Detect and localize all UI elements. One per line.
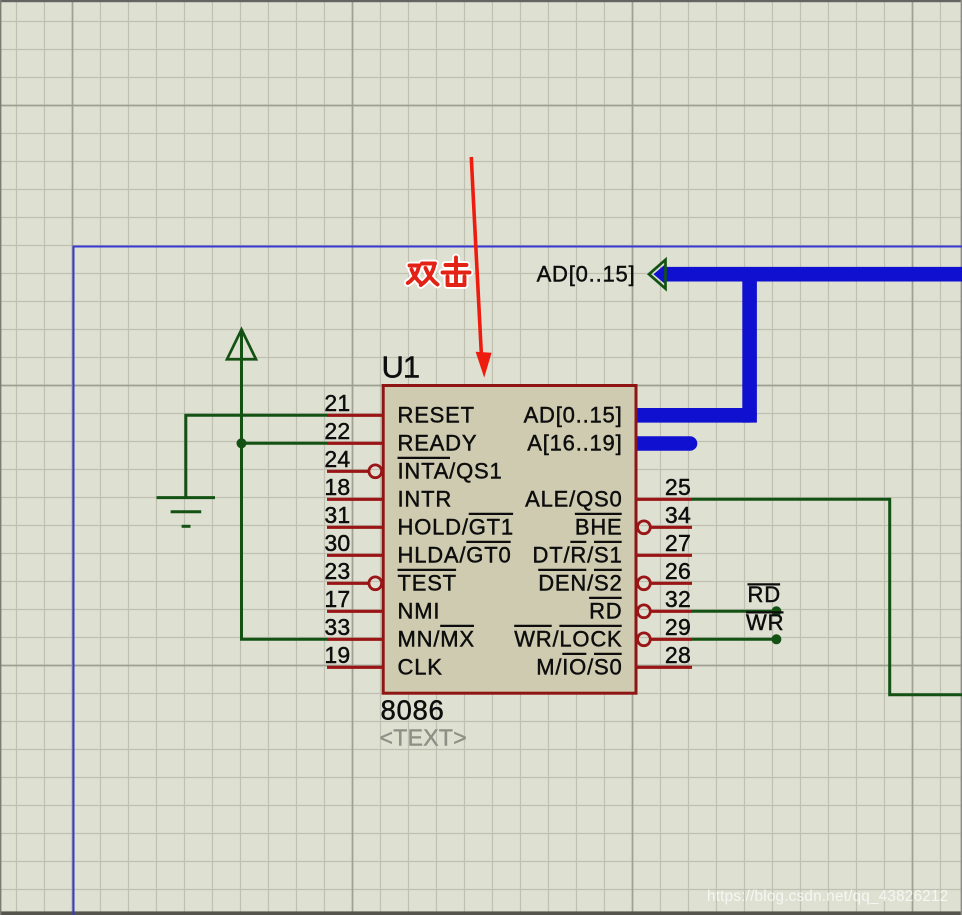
svg-text:25: 25 (665, 474, 691, 500)
bus vertical drop (742, 274, 757, 422)
pin label M/IO/S0 (536, 654, 622, 680)
pin 24 left (circle, row 3) (324, 446, 381, 478)
bus entry arrowhead (649, 260, 666, 289)
svg-text:DT/R/S1: DT/R/S1 (533, 543, 623, 568)
pin 32 right (circle, row 8) (638, 586, 693, 618)
svg-text:19: 19 (324, 642, 350, 668)
svg-text:27: 27 (665, 530, 691, 556)
pin label DEN/S2 (538, 570, 622, 596)
svg-text:32: 32 (665, 586, 691, 612)
pin label INTA/QS1 (398, 458, 503, 484)
net label AD[0..15] (537, 261, 636, 286)
svg-text:DEN/S2: DEN/S2 (538, 571, 622, 596)
svg-text:AD[0..15]: AD[0..15] (537, 261, 636, 286)
wire VCC rail down to MN/MX pin 33 (242, 330, 328, 639)
pin label INTR (398, 487, 453, 512)
svg-text:<TEXT>: <TEXT> (380, 725, 467, 751)
wire GND to RESET pin 21 (186, 415, 327, 497)
svg-text:30: 30 (324, 530, 350, 556)
svg-text:READY: READY (398, 431, 478, 456)
pin label BHE (575, 514, 623, 540)
pin label NMI (398, 599, 441, 624)
svg-text:21: 21 (324, 390, 350, 416)
svg-text:ALE/QS0: ALE/QS0 (525, 487, 622, 512)
pin label RESET (398, 403, 475, 428)
wire WR pin 29 to node WR (692, 638, 776, 641)
svg-text:RESET: RESET (398, 403, 475, 428)
pin label AD[0..15] (524, 403, 623, 428)
pin 17 left (row 8) (324, 586, 383, 612)
svg-text:NMI: NMI (398, 599, 441, 624)
wire RD pin 32 to node RD (692, 610, 776, 613)
pin label HLDA/GT0 (398, 542, 512, 568)
net label WR (746, 610, 784, 635)
svg-text:RD: RD (589, 599, 622, 624)
pin label ALE/QS0 (525, 487, 622, 512)
svg-text:22: 22 (324, 418, 350, 444)
pin 19 left (row 10) (324, 642, 383, 668)
pin 26 right (circle, row 7) (638, 558, 693, 590)
svg-text:RD: RD (748, 582, 781, 607)
pin 31 left (row 5) (324, 502, 383, 528)
svg-text:28: 28 (665, 642, 691, 668)
pin label READY (398, 431, 478, 456)
svg-text:A[16..19]: A[16..19] (527, 431, 622, 456)
pin 21 left (row 1) (324, 390, 383, 416)
pin 27 right (row 6) (636, 530, 692, 556)
svg-text:TEST: TEST (398, 571, 457, 596)
pin label WR/LOCK (514, 626, 622, 652)
label U1 (382, 350, 420, 385)
pin 18 left (row 4) (324, 474, 383, 500)
svg-text:8086: 8086 (381, 695, 445, 726)
svg-text:34: 34 (665, 502, 691, 528)
pin 28 right (row 10) (636, 642, 692, 668)
pin label CLK (398, 655, 443, 680)
bus stub AD[0..15] at pin (636, 408, 750, 423)
value label 8086 (381, 695, 445, 726)
svg-text:https://blog.csdn.net/qq_43826: https://blog.csdn.net/qq_43826212 (707, 888, 948, 905)
svg-text:HOLD/GT1: HOLD/GT1 (398, 515, 514, 540)
watermark (707, 888, 948, 905)
pin label RD (589, 598, 622, 624)
wire junction to READY pin 22 (242, 442, 328, 445)
svg-text:33: 33 (324, 614, 350, 640)
svg-text:U1: U1 (382, 350, 420, 385)
net label RD (748, 582, 781, 607)
label <TEXT> (380, 725, 467, 751)
node junction on READY wire (237, 438, 247, 448)
svg-text:MN/MX: MN/MX (398, 627, 475, 652)
pin label DT/R/S1 (533, 542, 623, 568)
pin 33 left (row 9) (324, 614, 383, 640)
svg-text:29: 29 (665, 614, 691, 640)
svg-text:17: 17 (324, 586, 350, 612)
svg-text:26: 26 (665, 558, 691, 584)
svg-text:24: 24 (324, 446, 350, 472)
svg-text:31: 31 (324, 502, 350, 528)
pin label A[16..19] (527, 431, 622, 456)
IC U1 8086 body (383, 386, 636, 694)
svg-text:CLK: CLK (398, 655, 443, 680)
svg-text:WR: WR (746, 610, 784, 635)
annotation text 双击 (double-click) (408, 258, 470, 286)
pin 23 left (circle, row 7) (324, 558, 381, 590)
power (VCC arrow) (227, 330, 256, 360)
svg-text:INTR: INTR (398, 487, 453, 512)
svg-text:HLDA/GT0: HLDA/GT0 (398, 543, 512, 568)
wire ALE/QS0 pin 25 to right edge (692, 499, 962, 695)
svg-text:23: 23 (324, 558, 350, 584)
ground (157, 498, 216, 527)
bus stub A[16..19] at pin (636, 436, 690, 451)
node WR junction dot (771, 634, 781, 644)
pin 29 right (circle, row 9) (638, 614, 693, 646)
svg-text:18: 18 (324, 474, 350, 500)
annotation arrow (red) (471, 157, 491, 378)
pin 34 right (circle, row 5) (638, 502, 693, 534)
svg-text:WR/LOCK: WR/LOCK (514, 627, 622, 652)
node RD junction dot (771, 606, 781, 616)
pin 22 left (row 2) (324, 418, 383, 444)
svg-text:AD[0..15]: AD[0..15] (524, 403, 623, 428)
pin label HOLD/GT1 (398, 514, 514, 540)
pin 25 right (row 4) (636, 474, 692, 500)
svg-text:M/IO/S0: M/IO/S0 (536, 655, 622, 680)
svg-text:BHE: BHE (575, 515, 623, 540)
bus AD[0..15] main horizontal (666, 267, 962, 282)
pin 30 left (row 6) (324, 530, 383, 556)
svg-text:INTA/QS1: INTA/QS1 (398, 459, 503, 484)
pin label MN/MX (398, 626, 475, 652)
pin label TEST (398, 570, 457, 596)
